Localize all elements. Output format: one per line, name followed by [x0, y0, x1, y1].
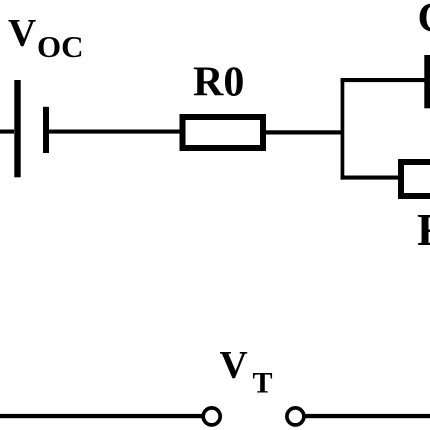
capacitor C1 left plate [424, 55, 430, 108]
svg-text:V: V [220, 344, 248, 387]
battery VOC short plate [43, 107, 49, 153]
svg-text:OC: OC [37, 29, 84, 64]
wire left stub to battery [0, 130, 14, 134]
wire bottom rail left [0, 414, 205, 418]
resistor R0 [183, 117, 264, 148]
svg-text:T: T [253, 366, 273, 399]
wire battery to R0 [49, 130, 180, 134]
svg-text:C1: C1 [418, 0, 430, 42]
terminal left circle [203, 408, 220, 425]
wire bottom rail right [305, 414, 430, 418]
terminal right circle [287, 408, 304, 425]
wire branch bottom to R1 [341, 176, 403, 180]
wire R0 to branch node [263, 130, 343, 134]
label V_OC [8, 12, 84, 65]
wire branch top to capacitor [341, 78, 426, 82]
svg-text:R0: R0 [193, 60, 244, 106]
svg-text:V: V [8, 12, 36, 55]
svg-text:R1: R1 [417, 205, 430, 255]
resistor R1 [401, 162, 430, 196]
node branch vertical wire [341, 78, 345, 180]
battery VOC long plate [14, 80, 20, 177]
label V_T [220, 344, 273, 400]
